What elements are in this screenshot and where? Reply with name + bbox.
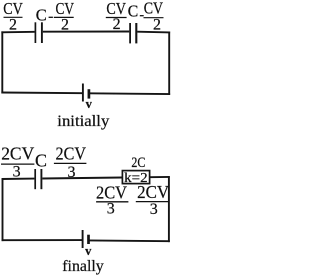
svg-text:2CV: 2CV [1,144,34,164]
capacitor C1 left plate [34,22,36,43]
svg-text:2CV: 2CV [56,144,87,164]
wire: bottom wire right segment (battery to right corner) [89,92,170,95]
wire: bottom wire right segment circuit 2 (battery to right corner) [89,239,170,242]
capacitor C right plate (circuit 2) [40,169,42,189]
svg-text:initially: initially [57,113,109,130]
svg-text:v: v [86,97,93,111]
capacitor C1 right plate [41,22,43,43]
battery V1 long plate (positive) [82,84,84,102]
label charge 2CV/3 (right plate of 2C, below wire) [136,182,170,218]
svg-text:CV: CV [3,0,23,18]
battery V2 long plate (positive) [82,230,84,248]
wire: bottom wire left segment circuit 2 (left corner to battery) [2,239,83,241]
wire: right edge of circuit 1 [168,32,170,96]
svg-text:3: 3 [150,201,158,218]
capacitor C left plate (circuit 2) [34,169,36,189]
battery V2 short thick plate (negative) [87,235,90,244]
minus sign of -CV/2 on capacitor C1 [49,16,53,18]
capacitor C2 left plate [129,23,131,43]
minus sign of -CV/2 on capacitor C2 [140,15,144,17]
wire: left edge of circuit 2 [2,178,4,241]
svg-text:finally: finally [62,258,104,275]
wire: top wire left segment (left corner to C1) [1,31,34,34]
svg-text:3: 3 [107,200,115,217]
wire: top wire middle segment (C1 to C2) [43,31,130,33]
svg-text:C: C [35,151,47,171]
battery V1 short thick plate (negative) [88,89,91,98]
label charge +CV/2 on capacitor C2 (fraction CV over 2) [106,0,127,33]
svg-text:C: C [128,2,139,21]
svg-text:C: C [36,6,47,25]
wire: top wire middle segment (capacitor C to dielectric box) [42,178,122,179]
wire: bottom wire left segment (left corner to battery) [1,92,83,95]
label charge 2CV/3 (left plate of 2C, below wire) [96,183,128,218]
wire: left edge of circuit 1 [1,31,3,93]
wire: top wire right segment (C2 to right corner) [137,31,170,34]
svg-text:2: 2 [9,16,17,33]
wire: top wire left segment circuit 2 (left corner to capacitor C) [2,178,35,180]
label charge 2CV/3 (right plate of capacitor C, circuit 2) [54,144,87,182]
dielectric box of capacitor 2C [122,171,149,184]
svg-text:2: 2 [113,16,121,33]
capacitor C2 right plate [135,23,137,43]
svg-text:2: 2 [153,16,161,33]
label charge +CV/2 on capacitor C1 (fraction CV over 2) [3,0,23,33]
label charge -CV/2 on capacitor C1 (fraction CV over 2) [54,0,74,33]
svg-text:CV: CV [55,0,74,18]
svg-text:v: v [85,244,92,258]
wire: right edge of circuit 2 [168,176,170,242]
svg-text:2C: 2C [131,155,145,171]
wire: top wire right segment (dielectric box to right corner) [150,176,170,178]
label charge -CV/2 on capacitor C2 (fraction CV over 2) [144,0,164,33]
svg-text:2CV: 2CV [137,182,169,202]
svg-text:CV: CV [144,0,163,18]
label charge +2CV/3 on capacitor C (fraction 2CV over 3) [1,144,35,181]
